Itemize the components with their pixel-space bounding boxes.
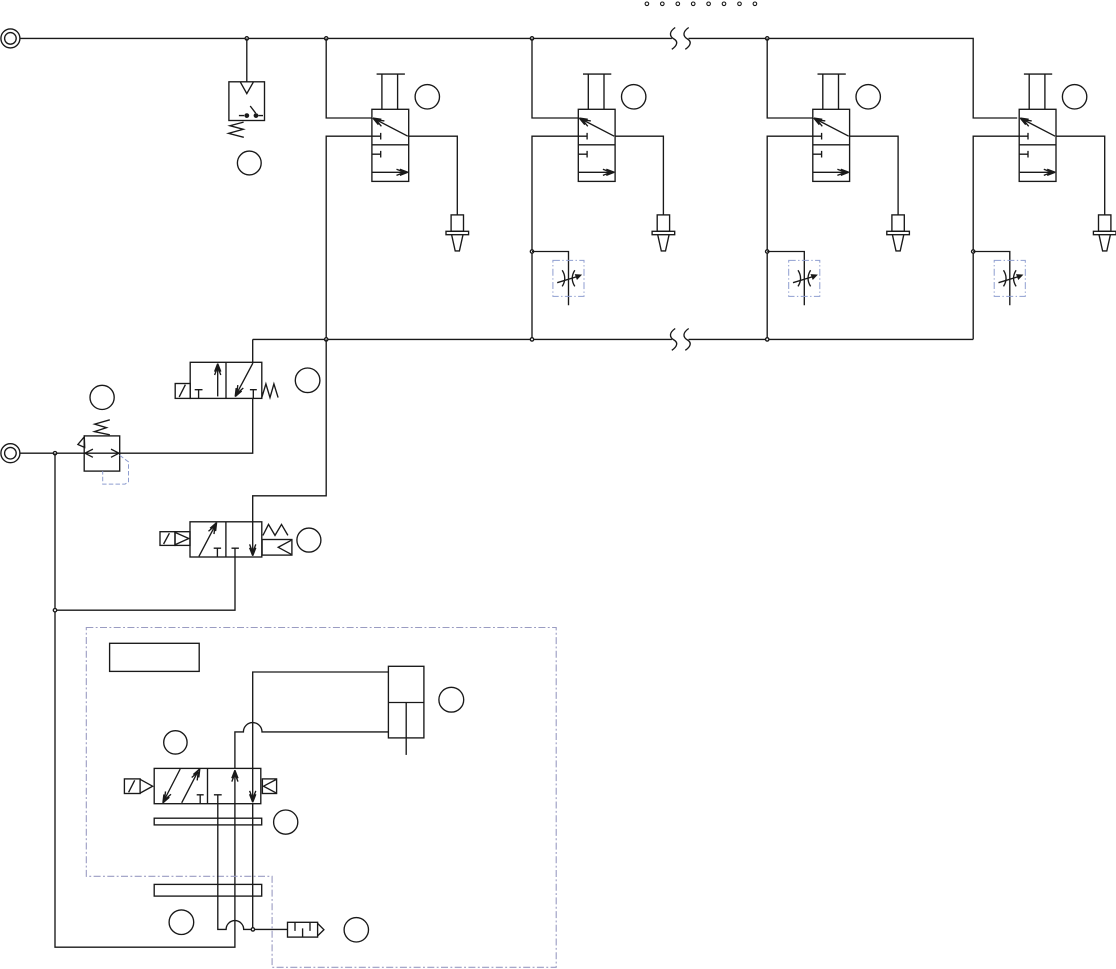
wire - top supply bus left segment [20,37,672,39]
valve V4 top cell blocked port [1019,133,1028,140]
balloon label circle for valve B [297,528,321,552]
valve C right cell blocked port [214,795,222,804]
pressure switch electrical contact [239,106,263,118]
balloon label circle for valve C [164,731,187,754]
wire - valve A top port to lower bus [252,339,254,362]
junction node lower bus at valve V2 drop [530,338,533,341]
mounting plate upper [154,818,262,825]
wire - valve V1 outlet to nozzle [409,136,458,215]
junction node on left supply riser [53,609,56,612]
3/2 push valve V2 body [578,109,615,181]
valve V4 top cell flow path with arrow [1020,118,1055,136]
balloon label circle for valve A [295,368,320,393]
3/2 valve A body [190,362,262,398]
wire - pilot line from lower bus junction down to valve B [253,339,327,521]
wire - valve V4 outlet to nozzle [1056,136,1105,215]
valve C crossed flow path 2 [182,769,200,803]
valve V4 bottom cell blocked port [1019,151,1028,158]
wire - supply drop from top bus to valve V2 [532,38,578,118]
valve B right cell blocked port [232,548,239,557]
valve V3 plunger actuator [818,74,846,109]
break symbol on top bus [670,28,690,50]
balloon label circle for regulator [90,385,114,409]
wire - pressure switch drop [246,38,248,81]
wire - valve V2 port to lower bus [532,136,578,339]
junction node at flow control tap 2 [530,250,533,253]
wire - valve V2 outlet to nozzle [615,136,663,215]
wire - left vertical supply run down to bottom manifold [55,453,235,947]
wire - valve V1 port to lower bus [326,136,372,339]
valve A right cell flow path with arrow [235,363,253,397]
valve V1 top cell blocked port [372,133,381,140]
junction node on muffler line [251,928,254,931]
valve B right cell flow arrow down [250,522,256,556]
row of small perforation dots at top center [645,2,757,6]
flow control valve FC3 throttle symbol [793,270,816,286]
balloon label circle for pressure switch [237,151,261,175]
regulator flow arrows [85,449,119,457]
valve A left cell flow arrow up [215,364,221,397]
exhaust muffler SIL [288,922,324,937]
regulator relief triangle [78,437,85,448]
wire - valve V3 outlet to nozzle [850,136,899,215]
wire - tap to flow control valve 3 [767,252,804,306]
air cylinder CYL body [388,666,424,738]
valve C left pilot actuator [124,779,152,794]
balloon label circle for muffler [344,918,368,942]
valve C crossed flow path 1 [163,769,180,803]
valve A left cell blocked port [195,390,203,399]
wire - lower bus right segment [689,338,974,340]
valve V1 bottom cell blocked port [372,151,381,158]
pressure switch spring [229,122,244,137]
flow control valve FC2 throttle symbol [557,270,580,286]
pressure regulator REG body [84,436,120,471]
valve V4 bottom cell flow arrow [1020,169,1055,175]
wire - supply drop from top bus to valve V3 [767,38,813,118]
junction node on top bus for valve V3 [766,37,769,40]
flow control (throttle) valve FC4 dashed enclosure [994,260,1025,296]
break symbol on lower bus [670,329,690,351]
balloon label circle for mounting plate [274,810,298,834]
regulator adjustment spring [95,420,110,435]
valve C exhaust flow arrow down [250,768,256,802]
flow control (throttle) valve FC3 dashed enclosure [789,260,820,296]
wire - top supply bus right segment with corner down to valve V4 [689,38,1018,118]
wire - supply drop from top bus to valve V1 [326,38,372,118]
blow nozzle N2 [652,215,675,251]
valve C supply flow arrow up [232,770,238,804]
valve A manual actuator [175,384,190,399]
valve V4 plunger actuator [1024,74,1052,109]
valve V1 bottom cell flow arrow [373,169,408,175]
valve V3 bottom cell blocked port [813,151,822,158]
3/2 push valve V4 body [1019,109,1056,181]
blow nozzle N3 [887,215,910,251]
blow nozzle N4 [1093,215,1116,251]
junction node lower bus at valve V3 drop [766,338,769,341]
valve V2 top cell blocked port [578,133,587,140]
mounting plate lower [154,884,262,896]
wire - valve V3 port to lower bus [767,136,813,339]
pneumatic pressure source port 1 (double circle) [1,29,20,48]
valve V3 top cell flow path with arrow [814,118,849,136]
air cylinder piston rod [405,703,407,755]
valve V1 plunger actuator [377,74,405,109]
machine boundary dashed box [86,628,556,968]
balloon label circle bottom left group [169,910,194,935]
pneumatic pressure source port 2 (double circle) [1,444,20,463]
valve V3 top cell blocked port [813,133,822,140]
valve C right pilot actuator [262,779,276,794]
junction node at pressure switch tap [245,37,248,40]
wire - cylinder cap-end line to valve port A [253,672,389,768]
valve V1 top cell flow path with arrow [373,118,408,136]
wire - valve C port A down leg [252,804,254,930]
valve B left cell blocked port [214,548,221,557]
valve V2 plunger actuator [583,74,611,109]
valve V2 bottom cell blocked port [578,151,587,158]
junction node at flow control tap 3 [766,250,769,253]
wire - tap to flow control valve 4 [973,252,1010,306]
3/2 push valve V1 body [372,109,409,181]
valve B left cell flow arrow [199,523,217,557]
valve V2 bottom cell flow arrow [579,169,614,175]
junction node at flow control tap 4 [972,250,975,253]
pressure switch PS body [229,82,265,121]
balloon label circle for cylinder [439,687,464,712]
name plate rectangle [110,643,200,671]
wire - valve B outlet down and left to supply riser [55,557,235,610]
3/2 push valve V3 body [813,109,850,181]
3/2 valve B body [190,522,262,557]
junction node lower bus / valve V1 / pilot line [325,338,328,341]
valve B return spring and pilot return [262,524,292,555]
wire - valve C exhaust port down to muffler line with crossover hop [218,804,288,930]
valve V3 bottom cell flow arrow [813,169,848,175]
junction node on top bus for valve V1 [325,37,328,40]
blow nozzle N1 [446,215,469,251]
wire - lower bus left segment [253,338,672,340]
valve A right cell blocked port [250,390,257,399]
balloon label circle for valve V4 [1062,85,1086,109]
flow control valve FC4 throttle symbol [999,270,1022,286]
balloon label circle for valve V1 [415,85,439,109]
wire - valve V4 port to lower bus [973,136,1019,339]
flow control (throttle) valve FC2 dashed enclosure [553,260,584,296]
valve A return spring [262,384,278,398]
balloon label circle for valve V2 [622,85,646,109]
valve B pilot actuator [160,532,190,546]
junction node on top bus for valve V2 [530,37,533,40]
wire - tap to flow control valve 2 [532,252,569,306]
wire - valve port B line to cylinder rod-end with crossover hop [235,723,389,769]
balloon label circle for valve V3 [856,85,880,109]
valve V2 top cell flow path with arrow [579,118,614,136]
5/2 control valve C body [154,768,261,803]
regulator gauge connection (dashed) [103,455,129,484]
junction node on supply line [53,452,56,455]
valve C left cell blocked port [197,795,204,804]
wire - main supply line through regulator to valve A riser [20,398,253,453]
